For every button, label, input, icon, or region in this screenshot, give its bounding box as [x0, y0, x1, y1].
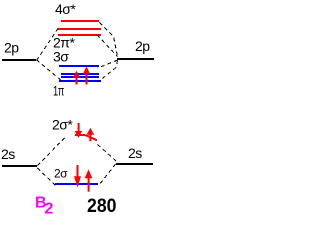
- svg-text:2s: 2s: [1, 146, 15, 162]
- svg-text:280: 280: [87, 196, 117, 217]
- svg-text:3σ: 3σ: [53, 49, 69, 65]
- svg-text:4σ*: 4σ*: [55, 1, 76, 17]
- svg-text:1π: 1π: [53, 83, 65, 99]
- svg-text:2σ*: 2σ*: [52, 117, 73, 133]
- svg-text:2σ: 2σ: [54, 167, 68, 181]
- svg-text:2p: 2p: [135, 38, 150, 54]
- svg-text:2p: 2p: [4, 40, 19, 56]
- svg-text:2s: 2s: [128, 145, 142, 161]
- svg-text:2: 2: [45, 201, 54, 218]
